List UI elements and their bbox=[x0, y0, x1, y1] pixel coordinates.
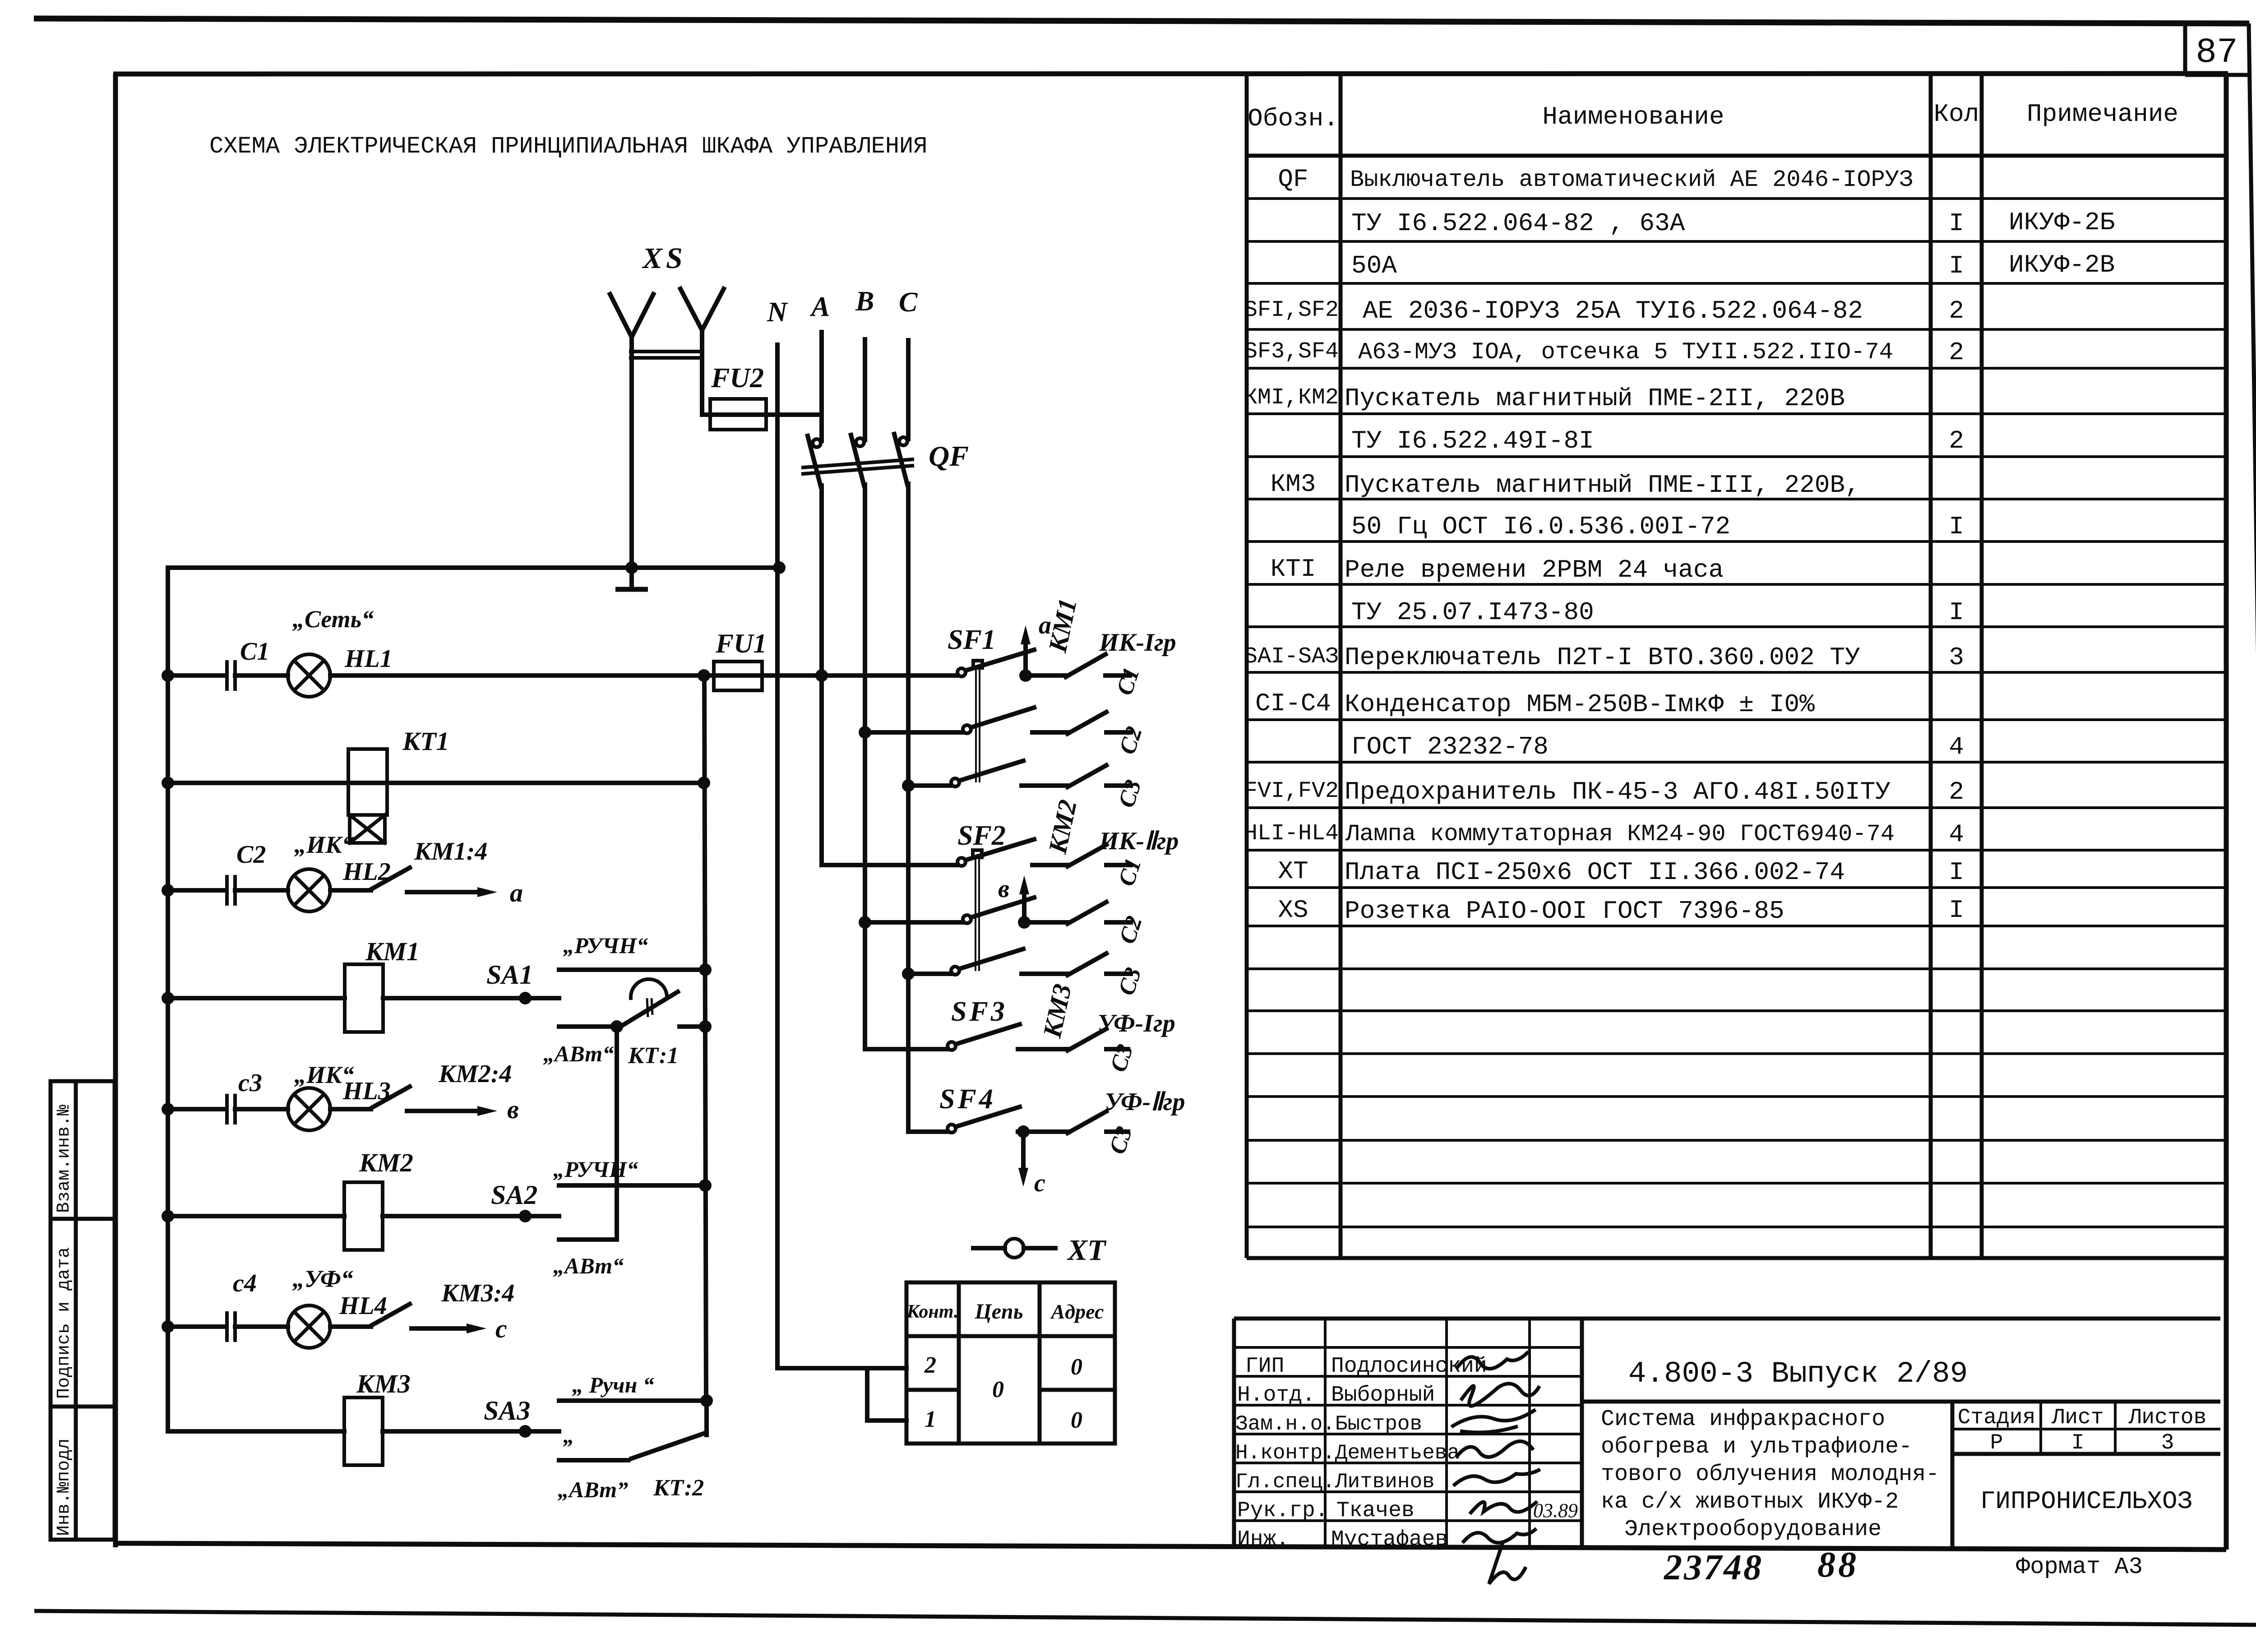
svg-text:0: 0 bbox=[1071, 1354, 1082, 1380]
svg-text:„РУЧН“: „РУЧН“ bbox=[563, 933, 648, 958]
svg-text:ИКУФ-2В: ИКУФ-2В bbox=[2009, 250, 2115, 279]
wire АВТ drop to SA2 bbox=[615, 1027, 619, 1240]
arrow to b bbox=[407, 1106, 497, 1116]
svg-text:88: 88 bbox=[1817, 1545, 1859, 1585]
contactor coil KM3 bbox=[344, 1397, 383, 1465]
contact KT:2 bbox=[632, 1401, 707, 1458]
svg-text:Выборный: Выборный bbox=[1331, 1383, 1435, 1407]
svg-text:УФ-Iгр: УФ-Iгр bbox=[1097, 1009, 1175, 1037]
signature squiggle 1 bbox=[1457, 1353, 1527, 1369]
wire KM1 row left bbox=[168, 996, 345, 1000]
wire KM2 row left bbox=[168, 1214, 344, 1218]
svg-text:„АВт”: „АВт” bbox=[558, 1477, 628, 1502]
svg-text:I: I bbox=[1949, 896, 1964, 925]
svg-text:2: 2 bbox=[1949, 426, 1964, 455]
svg-text:ХS: ХS bbox=[1278, 896, 1308, 925]
svg-text:ГОСТ 23232-78: ГОСТ 23232-78 bbox=[1351, 732, 1549, 761]
node SA3 pole bbox=[519, 1425, 532, 1438]
svg-text:c: c bbox=[1034, 1169, 1045, 1197]
svg-text:„РУЧН“: „РУЧН“ bbox=[553, 1157, 638, 1182]
svg-text:Предохранитель ПК-45-3 АГО.48I: Предохранитель ПК-45-3 АГО.48I.50IТУ bbox=[1345, 777, 1891, 806]
node SF4 output c bbox=[1017, 1125, 1030, 1138]
wire B vertical above QF bbox=[863, 339, 867, 440]
wire HL3 row left bbox=[168, 1107, 225, 1111]
svg-text:КМ3: КМ3 bbox=[1271, 470, 1316, 499]
svg-text:C: C bbox=[899, 287, 918, 318]
svg-text:Цепь: Цепь bbox=[974, 1300, 1023, 1323]
svg-text:I: I bbox=[1949, 209, 1964, 238]
svg-text:Наименование: Наименование bbox=[1542, 102, 1724, 131]
svg-text:КМ1: КМ1 bbox=[365, 937, 420, 966]
wire C vertical below QF bbox=[906, 484, 911, 1132]
svg-text:3: 3 bbox=[2161, 1431, 2174, 1455]
svg-text:SF3,SF4: SF3,SF4 bbox=[1244, 339, 1339, 365]
signature squiggle 4 bbox=[1457, 1441, 1532, 1457]
node SA1 pole bbox=[519, 992, 532, 1004]
svg-text:SF3: SF3 bbox=[951, 996, 1008, 1027]
sheet top border line bbox=[34, 19, 2249, 23]
arrow phase c down bbox=[1018, 1132, 1028, 1187]
wire KM3 row left bbox=[168, 1429, 344, 1434]
svg-text:4: 4 bbox=[1949, 732, 1964, 761]
svg-text:Н.отд.: Н.отд. bbox=[1237, 1383, 1315, 1407]
svg-text:50 Гц ОСТ I6.0.536.00I-72: 50 Гц ОСТ I6.0.536.00I-72 bbox=[1351, 512, 1730, 541]
switch SF2 pole 2 bbox=[963, 898, 1068, 923]
socket XS fork 2 bbox=[680, 289, 724, 330]
wire KM2 to SA2 bbox=[383, 1214, 559, 1218]
svg-text:Инв.№подл: Инв.№подл bbox=[54, 1439, 74, 1536]
arrow phase a up bbox=[1021, 625, 1031, 676]
switch SF1 linkage bbox=[973, 661, 982, 782]
svg-text:Формат А3: Формат А3 bbox=[2016, 1554, 2143, 1580]
signature table grid bbox=[1234, 1319, 1582, 1548]
arrow to c bbox=[411, 1323, 486, 1333]
node KT1 bus junction bbox=[698, 777, 710, 789]
drawing frame right bbox=[2224, 74, 2229, 1550]
node SA3 ручн bus junction bbox=[700, 1394, 713, 1407]
node rail-fork1 junction bbox=[625, 561, 638, 574]
svg-text:Плата ПСI-250х6 ОСТ II.366.0: Плата ПСI-250х6 ОСТ II.366.002-74 bbox=[1345, 858, 1845, 887]
svg-text:I: I bbox=[1949, 858, 1964, 887]
svg-text:КМ2:4: КМ2:4 bbox=[438, 1060, 512, 1088]
svg-text:КМI,КМ2: КМI,КМ2 bbox=[1244, 385, 1339, 411]
svg-text:Рук.гр.: Рук.гр. bbox=[1237, 1499, 1328, 1523]
svg-text:ТУ I6.522.49I-8I: ТУ I6.522.49I-8I bbox=[1351, 426, 1594, 455]
stage table bbox=[1952, 1402, 2220, 1454]
svg-text:SF1: SF1 bbox=[948, 625, 996, 655]
svg-text:87: 87 bbox=[2196, 33, 2238, 73]
svg-text:0: 0 bbox=[1071, 1407, 1082, 1433]
node C tap SF1 bbox=[902, 779, 915, 792]
project name cell divider bbox=[1951, 1402, 1955, 1548]
svg-text:I: I bbox=[1949, 251, 1964, 280]
svg-text:HL1: HL1 bbox=[344, 645, 393, 673]
svg-text:A: A bbox=[809, 292, 830, 322]
node bus HL3 row bbox=[162, 1103, 174, 1115]
svg-text:„: „ bbox=[563, 1423, 574, 1448]
svg-text:Ткачев: Ткачев bbox=[1336, 1499, 1415, 1523]
node bus HL1 row bbox=[162, 669, 174, 682]
wire control bus vertical bbox=[704, 676, 706, 1401]
contact KM2 main row2 bbox=[1068, 902, 1131, 924]
svg-text:0: 0 bbox=[992, 1377, 1004, 1402]
switch SA1 РУЧН throw bbox=[559, 967, 705, 972]
wire A elbow to SF2 pole1 bbox=[822, 863, 957, 867]
node A phase tap bbox=[815, 669, 828, 682]
svg-text:АЕ 2036-IОРУЗ 25А ТУI6.522.064: АЕ 2036-IОРУЗ 25А ТУI6.522.064-82 bbox=[1363, 296, 1863, 325]
contact KT:1 time-delay bbox=[623, 979, 705, 1027]
svg-text:КТ1: КТ1 bbox=[402, 727, 449, 756]
node C tap SF2 bbox=[902, 967, 915, 980]
svg-text:Стадия: Стадия bbox=[1958, 1406, 2036, 1430]
capacitor C3 bbox=[227, 1094, 235, 1124]
breaker QF pole B bbox=[851, 435, 864, 486]
svg-text:C2: C2 bbox=[236, 841, 266, 869]
wire C1 to HL1 bbox=[235, 673, 288, 678]
wire HL4 row left bbox=[168, 1324, 225, 1329]
contact KM2:4 bbox=[330, 1087, 410, 1109]
svg-text:КТI: КТI bbox=[1271, 555, 1316, 583]
svg-text:XS: XS bbox=[642, 242, 686, 275]
fuse FU2 bbox=[702, 399, 822, 430]
svg-text:HL4: HL4 bbox=[339, 1292, 387, 1320]
wire KM1 to SA1 bbox=[383, 996, 559, 1000]
breaker QF pole C bbox=[894, 434, 907, 485]
relay coil KT1 bbox=[348, 749, 387, 843]
node B tap SF2 bbox=[859, 916, 871, 929]
svg-text:Инж.: Инж. bbox=[1237, 1527, 1289, 1552]
contact KM3 main bbox=[1068, 1029, 1128, 1050]
svg-text:2: 2 bbox=[1949, 296, 1964, 325]
project name bbox=[1601, 1407, 1939, 1542]
svg-text:I: I bbox=[1949, 598, 1964, 627]
node bus KT1 row bbox=[162, 777, 174, 789]
svg-text:Примечание: Примечание bbox=[2027, 100, 2178, 129]
wire B to SF1 pole2 bbox=[865, 730, 963, 735]
wire KM3 to SA3 bbox=[383, 1429, 559, 1434]
svg-text:Реле времени 2РВМ 24 часа: Реле времени 2РВМ 24 часа bbox=[1345, 555, 1724, 584]
node KT1 out bus junction bbox=[699, 1020, 712, 1033]
svg-text:50А: 50А bbox=[1351, 251, 1397, 280]
svg-text:КМ1:4: КМ1:4 bbox=[414, 838, 487, 865]
svg-text:СХЕМА ЭЛЕКТРИЧЕСКАЯ ПРИНЦИПИАЛ: СХЕМА ЭЛЕКТРИЧЕСКАЯ ПРИНЦИПИАЛЬНАЯ ШКАФА… bbox=[209, 133, 927, 160]
node SA1 ручн bus junction bbox=[699, 963, 712, 976]
svg-text:Пускатель магнитный ПМЕ-III, 2: Пускатель магнитный ПМЕ-III, 220В, bbox=[1345, 471, 1860, 500]
arrow to a bbox=[407, 887, 497, 897]
wire B to SF2 pole2 bbox=[865, 920, 963, 925]
svg-text:„АВт“: „АВт“ bbox=[553, 1253, 624, 1278]
lamp HL3 bbox=[288, 1088, 330, 1130]
wire XS fork2 down to FU2 bbox=[702, 330, 710, 415]
drawing frame top bbox=[113, 74, 2228, 74]
svg-text:3: 3 bbox=[1949, 643, 1964, 672]
contact KM1 main row2 bbox=[1068, 712, 1131, 734]
wire left neutral bus bbox=[166, 568, 170, 1431]
svg-text:HLI-HL4: HLI-HL4 bbox=[1244, 821, 1339, 847]
wire A vertical above QF bbox=[819, 332, 824, 441]
contact KM2 main row3 bbox=[1068, 953, 1131, 975]
svg-text:XT: XT bbox=[1067, 1234, 1107, 1267]
svg-text:КТ:1: КТ:1 bbox=[628, 1043, 679, 1069]
contact SF4 main bbox=[1068, 1111, 1128, 1133]
wire neutral top rail bbox=[168, 565, 779, 570]
breaker QF linkage bar bbox=[803, 459, 912, 474]
svg-text:2: 2 bbox=[1949, 777, 1964, 806]
arrow phase b up bbox=[1019, 875, 1029, 922]
switch SF2 pole 3 bbox=[951, 949, 1068, 975]
svg-text:SA2: SA2 bbox=[491, 1180, 537, 1210]
wire XS fork1 down to neutral rail bbox=[629, 337, 634, 568]
svg-text:Пускатель магнитный ПМЕ-2II, 2: Пускатель магнитный ПМЕ-2II, 220В bbox=[1345, 384, 1845, 413]
svg-text:I: I bbox=[2071, 1431, 2085, 1455]
svg-text:4: 4 bbox=[1949, 820, 1964, 849]
switch SF4 bbox=[948, 1107, 1068, 1133]
svg-text:N: N bbox=[767, 297, 788, 328]
svg-text:FU1: FU1 bbox=[715, 629, 767, 658]
node bus HL2 row bbox=[162, 884, 174, 897]
svg-text:Подпись и дата: Подпись и дата bbox=[54, 1247, 74, 1399]
node SA2 ручн bus junction bbox=[699, 1179, 712, 1192]
svg-text:SF4: SF4 bbox=[939, 1084, 996, 1115]
wire FU1 to SF1 bbox=[762, 673, 957, 678]
svg-text:Переключатель П2Т-I ВТО.360.00: Переключатель П2Т-I ВТО.360.002 ТУ bbox=[1345, 643, 1860, 672]
signature squiggle 2 bbox=[1462, 1384, 1539, 1406]
svg-text:КМ3:4: КМ3:4 bbox=[441, 1279, 514, 1307]
terminal table XT bbox=[906, 1282, 1115, 1444]
title block outer bbox=[1234, 1319, 2220, 1548]
wire C3 to HL3 bbox=[235, 1107, 288, 1111]
wire C4 to HL4 bbox=[235, 1324, 288, 1329]
switch SF3 bbox=[948, 1024, 1068, 1050]
breaker QF pole A bbox=[808, 436, 821, 486]
lamp HL2 bbox=[288, 869, 330, 912]
wire A vertical below QF bbox=[819, 486, 824, 865]
svg-text:„УФ“: „УФ“ bbox=[292, 1265, 353, 1292]
wire C elbow to SF4 bbox=[908, 1129, 948, 1134]
wire HL2 row left bbox=[168, 888, 225, 893]
svg-text:Подлосинский: Подлосинский bbox=[1331, 1354, 1487, 1379]
left margin stamp column: outer box bbox=[51, 1081, 115, 1540]
signature squiggle 5 bbox=[1455, 1470, 1539, 1485]
svg-text:Листов: Листов bbox=[2128, 1406, 2207, 1430]
contactor coil KM2 bbox=[344, 1182, 383, 1250]
wire N vertical bbox=[775, 345, 780, 1368]
drawing frame left bbox=[113, 74, 118, 1547]
node rail-N junction bbox=[773, 561, 786, 574]
svg-text:QF: QF bbox=[1278, 165, 1308, 194]
wire C to SF2 pole3 bbox=[908, 972, 951, 976]
node АВТ KT1 junction bbox=[610, 1020, 623, 1033]
contact KM1 main row1 bbox=[1066, 654, 1130, 677]
wire HL1 row left bbox=[168, 673, 225, 678]
contactor coil KM1 bbox=[345, 964, 383, 1032]
wire C to SF1 pole3 bbox=[908, 783, 951, 788]
svg-text:тового облучения молодня-: тового облучения молодня- bbox=[1601, 1462, 1939, 1487]
svg-text:Электрооборудование: Электрооборудование bbox=[1624, 1517, 1882, 1542]
node B tap SF1 bbox=[859, 726, 871, 739]
svg-text:Мустафаев: Мустафаев bbox=[1331, 1527, 1448, 1552]
lamp HL1 bbox=[288, 654, 330, 697]
svg-text:обогрева и ультрафиоле-: обогрева и ультрафиоле- bbox=[1601, 1434, 1912, 1460]
svg-text:СI-С4: СI-С4 bbox=[1255, 689, 1331, 718]
doc number cell bbox=[1582, 1400, 2220, 1404]
fuse FU1 bbox=[714, 662, 762, 690]
svg-text:C1: C1 bbox=[240, 638, 269, 666]
node SF1 output a bbox=[1019, 669, 1032, 682]
svg-text:Н.контр.Дементьева: Н.контр.Дементьева bbox=[1235, 1441, 1460, 1465]
svg-text:Зам.н.о.Быстров: Зам.н.о.Быстров bbox=[1235, 1412, 1422, 1436]
svg-text:SАI-SАЗ: SАI-SАЗ bbox=[1244, 644, 1339, 670]
svg-text:ТУ 25.07.I473-80: ТУ 25.07.I473-80 bbox=[1351, 598, 1594, 627]
svg-text:FU2: FU2 bbox=[711, 363, 764, 393]
svg-text:„Сеть“: „Сеть“ bbox=[292, 606, 374, 633]
svg-text:Лист: Лист bbox=[2051, 1406, 2103, 1430]
signature squiggle 3 bbox=[1453, 1411, 1534, 1432]
svg-text:в: в bbox=[507, 1095, 519, 1124]
signature squiggle 6 bbox=[1471, 1502, 1536, 1513]
svg-text:Лампа коммутаторная КМ24-90 Г: Лампа коммутаторная КМ24-90 ГОСТ6940-74 bbox=[1345, 821, 1895, 847]
capacitor C2 bbox=[227, 875, 235, 906]
svg-text:ИКУФ-2Б: ИКУФ-2Б bbox=[2009, 208, 2115, 237]
svg-text:SFI,SF2: SFI,SF2 bbox=[1244, 297, 1339, 323]
svg-text:c4: c4 bbox=[233, 1269, 257, 1297]
capacitor C1 bbox=[227, 660, 235, 691]
svg-text:УФ-Ⅱгр: УФ-Ⅱгр bbox=[1105, 1088, 1185, 1116]
contact KM1:4 bbox=[330, 868, 410, 890]
svg-text:I: I bbox=[1949, 512, 1964, 541]
contact KM2 main row1 bbox=[1068, 845, 1131, 866]
wire B elbow to SF3 bbox=[865, 1047, 948, 1051]
svg-text:ГИП: ГИП bbox=[1245, 1354, 1284, 1379]
svg-text:А63-МУЗ IОА, отсечка 5 ТУII.52: А63-МУЗ IОА, отсечка 5 ТУII.522.IIО-74 bbox=[1358, 339, 1893, 366]
switch SA3 РУЧН throw bbox=[559, 1398, 708, 1403]
svg-text:FVI,FV2: FVI,FV2 bbox=[1244, 778, 1339, 804]
svg-text:Конденсатор МБМ-250В-IмкФ ± I0: Конденсатор МБМ-250В-IмкФ ± I0% bbox=[1345, 690, 1815, 719]
svg-text:QF: QF bbox=[929, 440, 969, 472]
parts table grid bbox=[1247, 74, 2226, 1258]
svg-text:a: a bbox=[510, 878, 523, 907]
node SF2 output b bbox=[1018, 916, 1031, 929]
svg-text:SA3: SA3 bbox=[484, 1396, 530, 1425]
node SA2 pole bbox=[519, 1210, 532, 1222]
svg-text:ХТ: ХТ bbox=[1278, 857, 1308, 886]
switch SF2 pole 1 bbox=[957, 839, 1068, 866]
svg-text:ка с/х животных ИКУФ-2: ка с/х животных ИКУФ-2 bbox=[1601, 1489, 1899, 1515]
svg-text:03.89: 03.89 bbox=[1533, 1499, 1578, 1522]
wire B vertical below QF bbox=[863, 485, 867, 1049]
svg-text:1: 1 bbox=[925, 1407, 936, 1432]
switch SA1 АВТ throw bbox=[559, 1024, 614, 1029]
svg-text:Гл.спец.Литвинов: Гл.спец.Литвинов bbox=[1235, 1470, 1435, 1494]
svg-text:Адрес: Адрес bbox=[1050, 1300, 1104, 1323]
svg-text:КМ2: КМ2 bbox=[359, 1148, 413, 1177]
switch SA2 РУЧН throw bbox=[559, 1183, 705, 1188]
wire HL1 to FU1 bbox=[330, 673, 714, 678]
svg-text:ТУ I6.522.064-82 , 63А: ТУ I6.522.064-82 , 63А bbox=[1351, 209, 1685, 238]
svg-text:„ Ручн “: „ Ручн “ bbox=[572, 1372, 654, 1397]
svg-text:Кол: Кол bbox=[1934, 100, 1979, 129]
drawing frame bottom bbox=[116, 1543, 2226, 1550]
svg-text:ГИПРОНИСЕЛЬХОЗ: ГИПРОНИСЕЛЬХОЗ bbox=[1980, 1487, 2192, 1516]
capacitor C4 bbox=[227, 1311, 235, 1342]
socket XS fork 1 bbox=[610, 294, 653, 337]
lamp HL4 bbox=[288, 1305, 330, 1348]
signature squiggle 7 bbox=[1464, 1530, 1535, 1584]
svg-text:Система инфракрасного: Система инфракрасного bbox=[1601, 1407, 1885, 1432]
switch SA3 АВТ throw bbox=[559, 1458, 628, 1462]
svg-text:SA1: SA1 bbox=[486, 960, 533, 990]
node FU1 control-bus junction bbox=[698, 669, 710, 682]
switch SF1 pole 2 bbox=[963, 708, 1068, 733]
sheet right border line bbox=[2249, 23, 2256, 1624]
wire N elbow to XT row2 bbox=[777, 1366, 906, 1370]
svg-text:в: в bbox=[998, 875, 1009, 903]
wire branch to XT row1 bbox=[867, 1368, 906, 1421]
svg-text:Выключатель автоматический АЕ: Выключатель автоматический АЕ 2046-IОРУЗ bbox=[1350, 167, 1913, 193]
contact KM1 main row3 bbox=[1068, 765, 1131, 787]
svg-text:SF2: SF2 bbox=[957, 820, 1006, 851]
svg-text:c: c bbox=[495, 1314, 507, 1343]
svg-text:КМ3: КМ3 bbox=[356, 1369, 411, 1398]
switch SA2 АВТ throw bbox=[559, 1237, 617, 1242]
sheet bottom border line bbox=[34, 1611, 2256, 1625]
terminal XT symbol bbox=[973, 1239, 1055, 1258]
node bus HL4 row bbox=[162, 1320, 174, 1333]
ground bbox=[615, 568, 648, 589]
node bus KM1 row bbox=[162, 992, 174, 1004]
svg-text:23748: 23748 bbox=[1664, 1548, 1763, 1587]
svg-text:c3: c3 bbox=[238, 1069, 262, 1097]
svg-text:„ИК“: „ИК“ bbox=[294, 831, 354, 858]
svg-text:4.800-3 Выпуск 2/89: 4.800-3 Выпуск 2/89 bbox=[1628, 1357, 1968, 1391]
svg-text:Конт.: Конт. bbox=[906, 1301, 959, 1322]
svg-text:Р: Р bbox=[1990, 1431, 2003, 1455]
svg-text:Взам.инв.№: Взам.инв.№ bbox=[54, 1105, 74, 1213]
svg-text:„АВт“: „АВт“ bbox=[543, 1041, 614, 1066]
svg-text:ИК-Ⅱгр: ИК-Ⅱгр bbox=[1099, 827, 1179, 855]
switch SF1 pole 1 bbox=[957, 650, 1066, 676]
socket XS bar bbox=[631, 352, 702, 358]
wire C2 to HL2 bbox=[235, 888, 288, 893]
svg-text:Розетка РАIО-ООI ГОСТ 7396-: Розетка РАIО-ООI ГОСТ 7396-85 bbox=[1345, 897, 1784, 925]
wire KT1 row bbox=[168, 781, 704, 785]
contact KM3:4 bbox=[330, 1304, 410, 1327]
node bus KM2 row bbox=[162, 1210, 174, 1222]
switch SF1 pole 3 bbox=[951, 761, 1068, 787]
svg-text:B: B bbox=[855, 286, 874, 317]
svg-text:ИК-Iгр: ИК-Iгр bbox=[1099, 629, 1176, 657]
svg-text:Обозн.: Обозн. bbox=[1248, 104, 1339, 133]
svg-text:2: 2 bbox=[924, 1352, 936, 1378]
svg-text:2: 2 bbox=[1949, 338, 1964, 367]
svg-text:КТ:2: КТ:2 bbox=[653, 1475, 704, 1501]
wire C vertical above QF bbox=[906, 340, 911, 439]
sheet page-number box bbox=[2185, 22, 2250, 75]
switch SF2 linkage bbox=[973, 850, 982, 971]
